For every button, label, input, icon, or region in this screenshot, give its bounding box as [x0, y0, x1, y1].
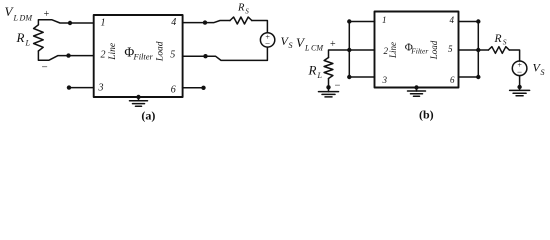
wire: bus to R_S (b) [478, 49, 488, 51]
svg-text:4: 4 [450, 15, 455, 25]
wire: pin 3 stub (a) [69, 87, 94, 89]
svg-text:5: 5 [170, 50, 175, 61]
filter box (a) [94, 15, 183, 97]
svg-text:L: L [317, 71, 323, 80]
svg-text:−: − [517, 67, 522, 77]
svg-text:Filter: Filter [410, 47, 428, 56]
wire: right bus (b) [477, 22, 479, 78]
node: left bus junction at pin 2 (b) [347, 48, 351, 52]
node: V_LDM + terminal dot [68, 21, 72, 25]
svg-text:R: R [16, 30, 25, 45]
svg-text:−: − [265, 39, 270, 49]
ground (b left) [319, 91, 339, 93]
svg-text:S: S [289, 41, 293, 50]
wire: pin 5 to bus (b) [459, 49, 479, 51]
wire: bus to pin 1 (b) [349, 21, 374, 23]
svg-text:L CM: L CM [304, 43, 324, 52]
ground (a) [138, 97, 140, 101]
wire: pin 4 to bus (b) [459, 21, 479, 23]
node: right bus junction at pin 4 (b) [476, 19, 480, 23]
svg-text:S: S [245, 7, 249, 15]
svg-text:R: R [237, 3, 245, 14]
source V_S circle (a) [260, 33, 274, 47]
source V_S circle (b) [512, 61, 527, 76]
svg-text:3: 3 [382, 75, 388, 85]
wire: V_S bottom to pin 5 (a) [183, 47, 268, 60]
filter box (b) [375, 12, 459, 88]
wire: R_L bottom lead to ground (b) [328, 79, 330, 92]
node: junction dot above ground (b left) [326, 85, 330, 89]
ground (b center) [416, 88, 418, 92]
node: pin 5 terminal dot (a) [203, 54, 207, 58]
svg-text:S: S [503, 38, 507, 47]
svg-text:−: − [42, 62, 48, 74]
node: pin 6 open terminal dot (a) [201, 86, 205, 90]
svg-text:Load: Load [155, 41, 165, 62]
wire: left bus (b) [348, 22, 350, 78]
wire: bus to pin 3 (b) [349, 76, 374, 78]
node: pin 3 open terminal dot (a) [67, 85, 71, 89]
node: ground junction on box bottom (b) [414, 85, 418, 89]
svg-text:1: 1 [101, 17, 106, 28]
wire: pin 6 stub (a) [183, 87, 204, 89]
svg-text:(b): (b) [419, 108, 434, 122]
wire: pin 6 to bus (b) [459, 76, 479, 78]
node: junction dot above ground (b right) [517, 85, 521, 89]
node: left bus junction at pin 1 (b) [347, 19, 351, 23]
svg-text:6: 6 [171, 85, 176, 96]
wire: RL bottom to pin 2 (a) [38, 51, 93, 60]
wire: RL top to pin 1 (a) [38, 20, 93, 25]
svg-text:Load: Load [429, 40, 439, 60]
svg-text:3: 3 [98, 83, 104, 94]
svg-text:Line: Line [388, 42, 398, 59]
svg-text:2: 2 [101, 50, 106, 61]
node: ground junction on box bottom (a) [136, 95, 140, 99]
node: right bus junction at pin 5 (b) [476, 48, 480, 52]
resistor R_L (b) zigzag [324, 58, 333, 79]
node: V_LDM - terminal dot [66, 53, 70, 57]
resistor R_L (a) zigzag [34, 25, 44, 51]
svg-text:+: + [44, 9, 50, 20]
svg-text:R: R [308, 62, 317, 77]
svg-text:R: R [494, 33, 502, 45]
svg-text:Filter: Filter [133, 52, 154, 62]
svg-text:5: 5 [448, 44, 453, 54]
resistor R_S (a) zigzag [230, 17, 252, 24]
svg-text:Line: Line [108, 43, 118, 61]
ground (b right) [510, 89, 530, 91]
resistor R_S (b) zigzag [488, 47, 509, 54]
wire: V_S bottom to ground (b) [519, 76, 521, 91]
svg-text:(a): (a) [141, 109, 155, 123]
svg-text:L DM: L DM [13, 13, 34, 22]
wire: R_S to V_S top (a) [252, 21, 268, 33]
wire: bus to pin 2 (b) [349, 49, 374, 51]
node: right bus junction at pin 6 (b) [476, 75, 480, 79]
svg-text:6: 6 [450, 75, 455, 85]
wire: pin 4 to R_S (a) [183, 21, 230, 23]
svg-text:L: L [25, 39, 31, 48]
svg-text:1: 1 [382, 15, 387, 25]
svg-text:4: 4 [171, 17, 176, 28]
svg-text:S: S [541, 68, 545, 77]
node: left bus junction at pin 3 (b) [347, 75, 351, 79]
wire: V_LCM node to bus (b) [329, 50, 350, 58]
svg-text:−: − [335, 80, 341, 91]
svg-text:+: + [330, 39, 336, 50]
wire: R_S to V_S top (b) [509, 50, 519, 61]
node: pin 4 terminal dot (a) [203, 20, 207, 24]
